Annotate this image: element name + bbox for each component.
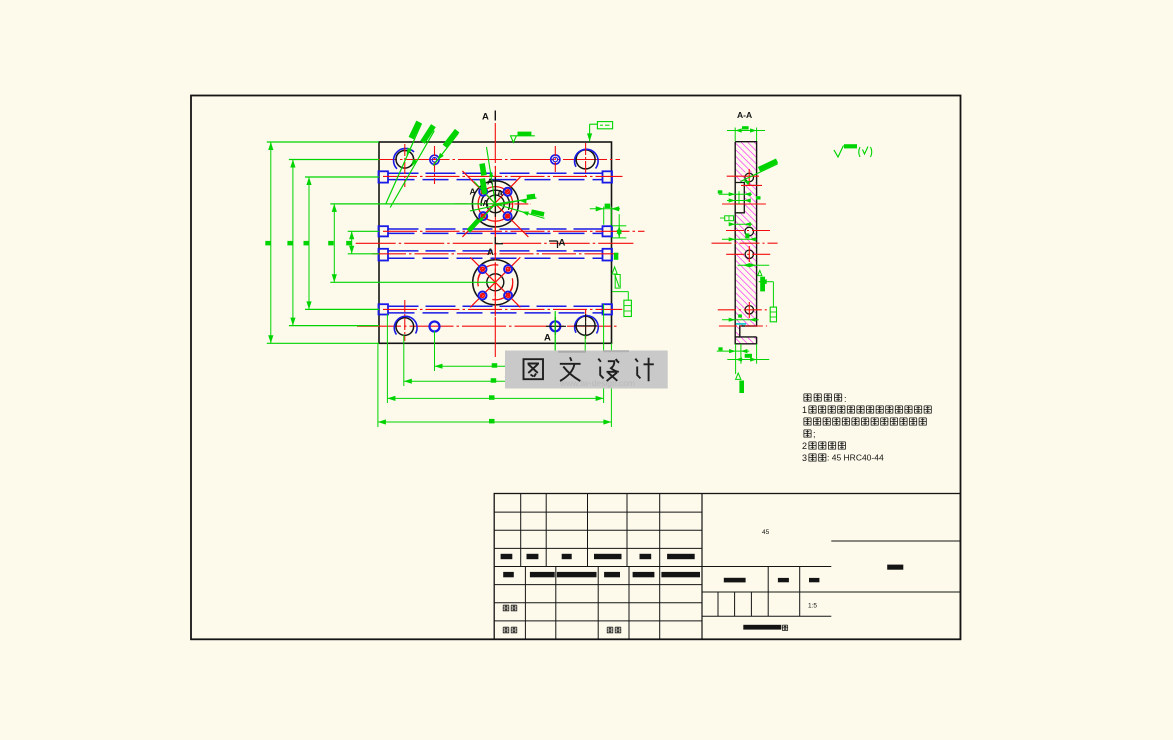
upper flange inner circle bbox=[487, 195, 505, 213]
wire extension left bbox=[348, 253, 379, 255]
svg-text:A: A bbox=[497, 188, 503, 198]
section gdt small left bbox=[725, 216, 734, 221]
upper flange bolt hole bbox=[504, 188, 512, 196]
roughness symbol top right bbox=[834, 146, 844, 158]
upper flange bolt hole bbox=[504, 212, 512, 220]
svg-text:3: 3 bbox=[802, 453, 807, 463]
flange leader right upper bbox=[495, 198, 536, 204]
lower flange vertical red centerline bbox=[494, 242, 496, 322]
dim left D flange centers bbox=[333, 204, 335, 282]
upper flange red diagonals bbox=[462, 171, 528, 237]
red centerline bottom hole row bbox=[357, 325, 618, 327]
watermark char she bbox=[598, 359, 619, 381]
section notch white left bbox=[736, 183, 744, 213]
small hole bottom-left-2 bbox=[430, 322, 440, 332]
hole bottom-left bore bbox=[396, 318, 414, 336]
wire extension left bbox=[348, 230, 379, 232]
flange leader up steep bbox=[487, 147, 496, 204]
section dim y239 bbox=[722, 238, 757, 240]
dim bottom 4 overall width bbox=[378, 421, 612, 423]
watermark char tu bbox=[524, 359, 544, 379]
small hole top-right-2 bbox=[551, 155, 560, 164]
black cross on bottom-right bore bbox=[574, 325, 597, 327]
lower flange red diagonals bbox=[470, 257, 520, 307]
hole bottom-right thread arc bbox=[575, 316, 599, 334]
green line hole A down bbox=[554, 311, 556, 366]
section top width dim bbox=[734, 128, 736, 142]
wire extension left bbox=[305, 308, 379, 310]
hole top-right thread arc bbox=[575, 149, 599, 168]
svg-text:A: A bbox=[559, 238, 566, 249]
section outline bbox=[735, 142, 756, 337]
wire extension left bbox=[289, 159, 379, 161]
lower flange bolt hole bbox=[504, 292, 512, 300]
section red centerlines bbox=[727, 175, 759, 177]
small hole top-left-2 bbox=[430, 155, 439, 164]
svg-text:www.tw-design.com: www.tw-design.com bbox=[559, 378, 635, 388]
wire extension left bbox=[267, 342, 379, 344]
hole top-left bore bbox=[396, 151, 414, 169]
technical requirements heading bbox=[804, 394, 811, 401]
svg-text:A: A bbox=[470, 187, 476, 197]
title block outer bbox=[494, 494, 960, 640]
dim left C slot rows bbox=[308, 177, 310, 309]
hole bottom-left thread arc bbox=[394, 316, 417, 334]
section text at hole2 bbox=[745, 233, 749, 238]
wire extension left bbox=[330, 203, 495, 205]
svg-text:A-A: A-A bbox=[737, 110, 752, 120]
dim left E slot pair bbox=[351, 231, 353, 254]
section below-bottom verticals bbox=[735, 344, 737, 374]
right small vdim rows bbox=[612, 225, 627, 227]
wire extension bottom bbox=[386, 314, 388, 403]
section body hatch bbox=[735, 142, 756, 337]
section tick top bbox=[494, 111, 496, 121]
slot row 4 right end block bbox=[603, 304, 613, 314]
red centerline slot row 2 bbox=[383, 230, 645, 232]
svg-text:A: A bbox=[482, 112, 489, 123]
lower flange bolt hole bbox=[504, 265, 512, 273]
cut line jog center bbox=[494, 237, 496, 244]
svg-text:2: 2 bbox=[802, 441, 807, 451]
lower flange bolt hole bbox=[479, 292, 487, 300]
slot row 3 right end block bbox=[603, 249, 613, 261]
red vertical centerline through plate bbox=[494, 123, 496, 360]
row8 label col4 bbox=[607, 627, 613, 633]
middle band1 columns bbox=[767, 567, 769, 593]
svg-text:1:5: 1:5 bbox=[808, 603, 817, 610]
middle band1 bars bbox=[724, 578, 746, 583]
flange leader right lower bbox=[495, 204, 544, 219]
red centerline slot row 3 bbox=[372, 253, 619, 255]
small dim at plate right edge bbox=[590, 208, 620, 210]
title block left grid columns upper bbox=[520, 494, 522, 567]
wire extension bottom bbox=[403, 335, 405, 386]
svg-text::: : bbox=[844, 394, 847, 404]
slot row 2 blue lines bbox=[389, 228, 603, 230]
wire extension bottom bbox=[610, 343, 612, 427]
lower flange outer circle bbox=[473, 260, 518, 305]
section step outline bbox=[735, 183, 744, 213]
dim left A overall height bbox=[270, 142, 272, 343]
slot row 4 left end block bbox=[379, 304, 389, 314]
watermark grey box bbox=[505, 351, 668, 389]
upper flange outer circle bbox=[472, 181, 518, 227]
watermark remnant blobs bbox=[558, 351, 586, 353]
wire extension bottom bbox=[603, 304, 605, 403]
section dim y319 bbox=[722, 319, 759, 321]
small hole bottom-right-2 bbox=[550, 321, 560, 331]
svg-text:A: A bbox=[483, 198, 489, 208]
title block left grid rows bbox=[494, 511, 702, 513]
leader 1 top-left hole bbox=[386, 124, 422, 205]
dim bottom 2 bbox=[404, 380, 585, 382]
plate outline bbox=[379, 142, 612, 343]
right section rows bbox=[831, 540, 960, 542]
svg-text:A: A bbox=[487, 177, 493, 187]
gdt frame right leader bbox=[612, 291, 628, 293]
roughness symbol on top edge bbox=[511, 136, 517, 143]
leader 3 small hole bbox=[433, 134, 458, 166]
middle band2 subcolumns bbox=[717, 592, 719, 616]
wire extension bottom bbox=[434, 331, 436, 371]
slot row 4 blue lines bbox=[389, 305, 603, 307]
slot row 1 blue lines bbox=[389, 172, 603, 174]
svg-text:A: A bbox=[487, 247, 494, 258]
upper flange mid arc bbox=[481, 190, 509, 210]
upper flange bolt hole bbox=[479, 212, 487, 220]
red centerline top hole row bbox=[353, 159, 620, 161]
lower flange inner circle bbox=[487, 274, 504, 291]
section dim y265 bbox=[738, 264, 770, 266]
upper flange bolt circle red bbox=[478, 187, 513, 222]
dim bottom 1 bbox=[435, 365, 556, 367]
leader with green label box top-right bbox=[589, 124, 591, 141]
slot row 2 left end block bbox=[379, 226, 389, 236]
datum triangle flag right bbox=[612, 267, 617, 274]
upper flange bolt hole bbox=[479, 188, 487, 196]
parts list black bars row4 bbox=[501, 554, 513, 559]
svg-text:: 45 HRC40-44: : 45 HRC40-44 bbox=[827, 453, 884, 463]
wire extension left bbox=[267, 141, 379, 143]
section dim y359 bbox=[727, 359, 769, 361]
middle bottom bar bbox=[743, 625, 781, 630]
flange leader shallow right arrowpair bbox=[470, 198, 533, 211]
wire extension bottom bbox=[584, 335, 586, 386]
tech line 3 bbox=[804, 430, 811, 437]
svg-text:A: A bbox=[544, 333, 551, 344]
wire extension left bbox=[289, 325, 379, 327]
hole bottom-right bore bbox=[576, 316, 595, 335]
right black bar bbox=[887, 565, 903, 570]
dim left B hole rows bbox=[292, 160, 294, 326]
slot row 2 right end block bbox=[603, 226, 613, 236]
svg-text:;: ; bbox=[813, 429, 816, 439]
flange leader up-left bbox=[474, 182, 495, 204]
lower flange bolt hole bbox=[479, 265, 487, 273]
red centerline slot row 4 bbox=[383, 308, 622, 310]
section gdt frame right bbox=[759, 281, 774, 283]
watermark char wen bbox=[560, 357, 581, 381]
lower flange bolt circle red arcs bbox=[478, 265, 498, 280]
watermark char ji bbox=[635, 358, 654, 381]
section red cross verticals bbox=[748, 246, 750, 262]
dim bottom 3 bbox=[387, 397, 603, 399]
black cross on bottom small hole A bbox=[546, 325, 566, 327]
slot row 3 left end block bbox=[379, 249, 389, 261]
parts list black bars row5 bbox=[503, 572, 514, 577]
cut line jog right bbox=[549, 240, 558, 242]
section leader top-right bbox=[740, 164, 777, 182]
red centerline slot row 1 bbox=[383, 175, 623, 177]
hole top-left vertical centerline bbox=[404, 144, 406, 187]
section mid dims bbox=[719, 193, 752, 195]
section dim y224 bbox=[730, 223, 753, 225]
hole top-left thread arc bbox=[394, 148, 414, 168]
leader 2 top-left hole bbox=[390, 131, 434, 208]
section hole circles bbox=[745, 173, 754, 182]
section cut line through flange bbox=[494, 177, 496, 217]
upper flange vertical red centerline bbox=[494, 166, 496, 242]
wire extension left bbox=[305, 176, 379, 178]
svg-text:1: 1 bbox=[802, 405, 807, 415]
green text block row3 right bbox=[614, 253, 619, 260]
section bottom band hatch bbox=[735, 337, 756, 344]
red horizontal mid centerline bbox=[356, 242, 634, 244]
section white around holes bbox=[744, 173, 756, 183]
svg-text:45: 45 bbox=[762, 529, 770, 536]
wire extension left bbox=[330, 281, 495, 283]
section dim y351 bbox=[717, 350, 750, 352]
section datum A bottom bbox=[736, 373, 741, 379]
wire extension bottom bbox=[554, 311, 556, 371]
section cyan line bbox=[736, 323, 746, 325]
section datum A right bbox=[758, 270, 762, 275]
tech line 2 bbox=[804, 418, 811, 425]
slot row 3 blue lines bbox=[389, 250, 603, 252]
wire extension bottom bbox=[377, 343, 379, 427]
row7 label bbox=[503, 605, 509, 611]
flange leader left-down bbox=[471, 204, 496, 231]
slot row 1 right end block bbox=[603, 171, 613, 182]
slot row 1 left end block bbox=[379, 171, 389, 182]
hole top-right bore bbox=[576, 150, 595, 169]
drawing frame border bbox=[191, 96, 961, 640]
row8 label left bbox=[503, 627, 509, 633]
upper flange horizontal red centerline bbox=[454, 203, 530, 205]
title block left grid columns lower bbox=[524, 567, 526, 640]
